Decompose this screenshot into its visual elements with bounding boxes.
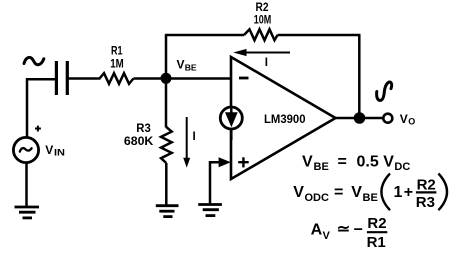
label VBE xyxy=(177,58,197,73)
svg-text:≃: ≃ xyxy=(337,221,350,238)
svg-text:+: + xyxy=(404,184,413,201)
svg-text:680K: 680K xyxy=(124,136,154,148)
svg-text:R2: R2 xyxy=(367,215,386,232)
label VIN xyxy=(45,143,65,158)
current arrow I through R3 xyxy=(183,117,190,168)
svg-text:V: V xyxy=(383,153,394,170)
svg-text:V: V xyxy=(293,184,304,201)
svg-text:R2: R2 xyxy=(256,2,269,14)
svg-text:=: = xyxy=(338,153,347,170)
svg-text:0.5: 0.5 xyxy=(357,153,379,170)
svg-text:ODC: ODC xyxy=(305,192,330,204)
label R2 value 10M xyxy=(254,2,272,27)
minus input sign xyxy=(239,77,249,80)
svg-text:=: = xyxy=(334,184,343,201)
svg-text:O: O xyxy=(408,116,415,126)
svg-text:R3: R3 xyxy=(136,123,151,135)
wire R2 to right corner xyxy=(278,34,361,37)
wire vertical from top feedback down through node to R3 xyxy=(165,35,168,128)
wire R3 to ground xyxy=(165,163,168,206)
svg-text:V: V xyxy=(302,153,313,170)
svg-text:V: V xyxy=(323,230,331,242)
input waveform symbol xyxy=(24,57,44,64)
svg-text:V: V xyxy=(351,184,362,201)
svg-text:V: V xyxy=(400,112,408,126)
equation VBE = 0.5 VDC xyxy=(302,153,410,173)
output terminal xyxy=(383,114,392,123)
wire VIN to ground xyxy=(25,163,28,208)
wire right vertical down to output node xyxy=(358,35,361,118)
svg-text:LM3900: LM3900 xyxy=(264,112,306,126)
source VIN xyxy=(13,137,38,162)
plus input sign xyxy=(238,157,249,167)
svg-text:10M: 10M xyxy=(254,14,272,26)
op-amp U1 LM3900 triangle xyxy=(231,57,336,179)
feedback current arrow I xyxy=(233,49,290,56)
svg-text:1M: 1M xyxy=(110,58,124,70)
wire capacitor to R1 xyxy=(69,77,101,80)
svg-text:IN: IN xyxy=(54,147,65,157)
capacitor C1 xyxy=(56,61,67,95)
resistor R2 xyxy=(244,29,278,40)
svg-text:I: I xyxy=(193,131,196,143)
svg-text:R1: R1 xyxy=(111,46,123,58)
ground below VIN xyxy=(15,207,40,218)
node VBE junction xyxy=(161,73,172,84)
svg-text:−: − xyxy=(354,222,363,239)
svg-text:R3: R3 xyxy=(416,194,435,211)
svg-text:V: V xyxy=(45,143,53,157)
wire node to op-amp minus input xyxy=(166,77,231,80)
current source (Norton mirror) inside op-amp xyxy=(220,107,242,140)
wire op-amp output to terminal xyxy=(336,117,384,120)
svg-text:BE: BE xyxy=(185,62,197,72)
label R3 value 680K xyxy=(124,123,154,148)
wire top feedback run left xyxy=(165,34,244,37)
output waveform symbol xyxy=(377,82,392,100)
resistor R3 xyxy=(161,127,172,163)
ground at plus input xyxy=(198,205,222,216)
svg-text:DC: DC xyxy=(394,161,410,173)
output node junction xyxy=(354,112,366,124)
wire R1 to node xyxy=(134,77,167,80)
equation AV = -R2/R1 xyxy=(311,215,388,251)
label Vo xyxy=(400,112,416,127)
svg-text:A: A xyxy=(311,222,323,239)
plus polarity sign xyxy=(35,126,41,132)
svg-text:R2: R2 xyxy=(417,176,436,193)
equation VODC = VBE (1 + R2/R3) xyxy=(293,174,447,211)
svg-text:I: I xyxy=(265,57,268,69)
svg-text:V: V xyxy=(177,58,185,72)
svg-text:R1: R1 xyxy=(367,234,386,251)
resistor R1 xyxy=(100,73,134,84)
svg-text:BE: BE xyxy=(363,192,378,204)
svg-text:BE: BE xyxy=(314,161,329,173)
wire input L-corner xyxy=(27,79,55,137)
wire plus input from ground with mirror arrow xyxy=(210,157,231,204)
label R1 value 1M xyxy=(110,46,124,71)
ground below R3 xyxy=(156,206,179,217)
svg-text:1: 1 xyxy=(394,184,403,201)
